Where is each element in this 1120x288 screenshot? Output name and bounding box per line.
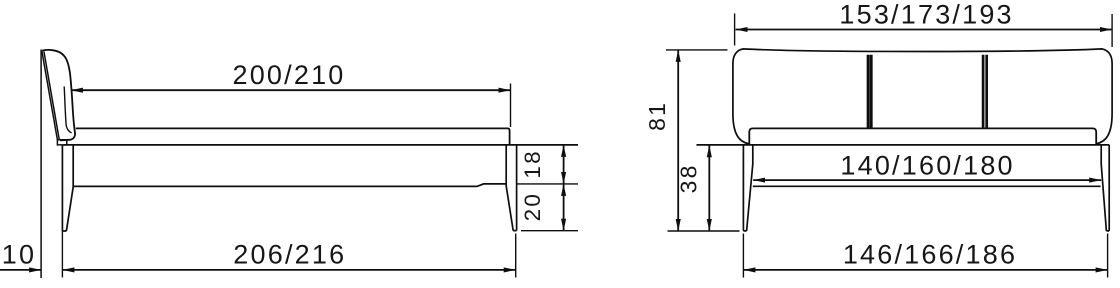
extension line above foot corner (510, 84, 512, 128)
svg-text:200/210: 200/210 (233, 60, 346, 90)
dimension 153/173/193 line (736, 29, 1112, 31)
headboard cushion seam line (64, 87, 71, 133)
cushion divider 1 (double line) (868, 55, 871, 129)
dimension 140/160/180 line (753, 179, 1101, 181)
top extension line for dim 81 (666, 49, 728, 51)
svg-text:146/166/186: 146/166/186 (843, 239, 1017, 269)
headboard cushion outline (42, 50, 75, 140)
foot leg extension line down (515, 234, 517, 278)
floor extension line left of legs (668, 230, 740, 232)
dimension 81 vertical line (677, 50, 679, 231)
dimension 206/216 and 10 baseline (0, 269, 41, 271)
dimension 146/166/186 line (743, 269, 1107, 271)
dimension chain 20 vertical (563, 184, 565, 231)
foot leg (506, 145, 516, 231)
headboard cushion outline front (733, 49, 1112, 144)
svg-text:153/173/193: 153/173/193 (839, 0, 1013, 30)
front rail bottom line (753, 185, 1101, 187)
extension line for dim 18/20 middle (517, 183, 578, 185)
headboard back board vertical line (continues down as extension line) (40, 50, 42, 279)
dimension 38 vertical line (708, 145, 710, 231)
dimension 200/210 line with arrows (71, 89, 511, 91)
side rail top line (continues right as extension line for dim 18) (64, 144, 579, 146)
front rail outline (749, 128, 1096, 144)
side rail bottom line with small step near foot (73, 184, 506, 187)
svg-text:206/216: 206/216 (233, 239, 346, 269)
head leg (62, 145, 73, 231)
svg-text:20: 20 (520, 192, 545, 221)
headboard slanted board inner line (44, 51, 59, 139)
svg-text:18: 18 (520, 149, 545, 178)
svg-text:140/160/180: 140/160/180 (840, 150, 1014, 180)
cushion divider 2 (double line) (983, 55, 987, 129)
head leg extension line down (61, 231, 63, 278)
front right leg extension down (1107, 234, 1109, 278)
headboard slanted board outer line (42, 51, 58, 140)
extension line above cushion left (734, 14, 736, 46)
extension line above cushion right (1111, 14, 1113, 47)
front left leg extension down (742, 234, 744, 278)
svg-text:38: 38 (675, 163, 701, 193)
dimension chain 18 vertical (563, 145, 565, 184)
dimension 206/216 main line with arrows (62, 269, 515, 271)
svg-text:81: 81 (644, 101, 670, 131)
front left leg (743, 145, 752, 231)
headboard board bottom block (57, 140, 66, 145)
full width line at leg tops (continues left as extension for dim 38) (697, 144, 1110, 146)
front right leg (1101, 145, 1109, 231)
foot floor extension line right (521, 230, 578, 232)
svg-text:10: 10 (2, 239, 36, 269)
bed platform top line with right corner edge (76, 128, 510, 144)
